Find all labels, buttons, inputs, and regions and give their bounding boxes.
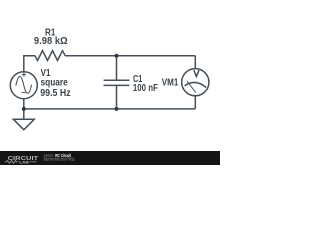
svg-text:100 nF: 100 nF [133,83,158,94]
svg-text:square: square [41,78,69,89]
wire VM1 top [194,56,196,69]
V1 minus sign [22,91,26,93]
capacitor C1 branch bottom [116,85,118,109]
svg-text:http://circuitlab.com/c/7fs62p: http://circuitlab.com/c/7fs62p [44,157,75,162]
node junction dot (V1/ground/bottom rail) [22,107,26,111]
wire top-left: V1 top to resistor [24,56,35,72]
V letter inside voltmeter [194,70,199,76]
svg-text:LAB: LAB [19,159,29,164]
node junction dot bottom (C1/bottom rail) [115,107,119,111]
V1 plus sign [22,73,26,77]
V1 sine symbol [16,77,32,94]
VM1 meter arc [185,82,207,87]
capacitor C1 branch top [116,56,118,80]
wire VM1 bottom [194,96,196,109]
wire V1 bottom to ground [23,99,25,120]
footer bar [0,151,220,165]
capacitor C1 plates [104,80,130,85]
VM1 needle [187,81,196,92]
wire bottom rail [24,108,196,110]
node junction dot top (C1/top rail) [115,54,119,58]
resistor R1 [35,51,65,61]
logo resistor zigzag [5,160,37,163]
svg-text:VM1: VM1 [162,78,179,89]
voltage source V1 [10,72,37,99]
voltmeter VM1 [182,69,209,96]
svg-text:9.98 kΩ: 9.98 kΩ [34,36,68,47]
ground [13,119,34,130]
wire top rail [65,55,195,57]
svg-text:99.5 Hz: 99.5 Hz [40,88,70,99]
